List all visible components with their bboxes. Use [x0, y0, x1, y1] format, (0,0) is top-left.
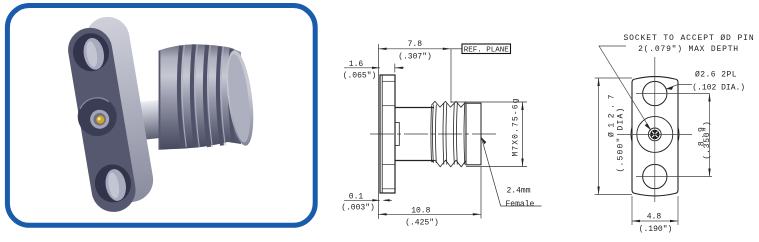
bottom hole [643, 164, 667, 188]
7.8 dim line [378, 48, 451, 50]
smooth tip [466, 103, 481, 165]
dia 12.7 dim [595, 77, 632, 79]
0.1 dim [344, 199, 380, 201]
svg-text:(.065″): (.065″) [343, 72, 377, 81]
coupling nut body [159, 44, 242, 150]
top hole [643, 81, 667, 105]
side bump arcs [631, 126, 632, 143]
svg-text:(.190″): (.190″) [639, 225, 673, 234]
svg-text:4.8: 4.8 [647, 212, 662, 221]
svg-text:Female: Female [506, 200, 535, 209]
svg-text:2.4mm: 2.4mm [507, 187, 531, 196]
centerline [370, 133, 496, 135]
4.8 dim [631, 196, 633, 225]
svg-text:10.8: 10.8 [411, 207, 430, 216]
side/back face light band [82, 14, 156, 206]
center boss [75, 94, 120, 139]
body cylinder [395, 107, 434, 109]
nut thread ribs [179, 45, 234, 148]
left extension line [377, 44, 379, 219]
dimensions middle [344, 44, 542, 219]
flange plate 3d [62, 14, 158, 216]
arrowheads right [597, 78, 710, 222]
ref plane connector [451, 48, 462, 50]
arrowheads middle [372, 48, 524, 216]
REF. PLANE box [462, 44, 511, 54]
socket slots [652, 132, 658, 138]
svg-text:REF. PLANE: REF. PLANE [464, 47, 510, 55]
nut end face [222, 49, 258, 147]
front dark face [65, 25, 139, 216]
neck notch [395, 123, 399, 146]
svg-text:M7X0.75-6g: M7X0.75-6g [512, 97, 521, 156]
svg-text:(.102 DIA.): (.102 DIA.) [692, 84, 745, 93]
svg-text:0.1: 0.1 [349, 192, 364, 201]
1.6 dim [344, 67, 380, 69]
crosshairs right view [595, 46, 712, 225]
nut left edge line [159, 51, 161, 150]
2.6 leader [666, 85, 692, 90]
ref plane vertical [450, 49, 452, 103]
boss circle [637, 116, 673, 152]
blue frame [7, 6, 315, 226]
svg-text:(.350″): (.350″) [703, 120, 712, 159]
svg-text:(.003″): (.003″) [341, 204, 375, 213]
flange plate section [380, 75, 395, 193]
0.1 step face [381, 76, 383, 193]
svg-text:7.8: 7.8 [408, 40, 423, 49]
top mounting hole [70, 31, 112, 74]
svg-text:(.307″): (.307″) [398, 53, 432, 62]
socket outer [648, 128, 661, 141]
svg-text:(.425″): (.425″) [405, 219, 439, 228]
2.4mm female leader [481, 137, 541, 206]
nut rib highlights [182, 45, 225, 148]
socket center dot [654, 133, 656, 135]
threads [431, 101, 466, 167]
10.8 dim [480, 167, 482, 219]
M7 dim [451, 101, 527, 103]
svg-text:Ø2.6 2PL: Ø2.6 2PL [695, 71, 737, 80]
connector neck cylinder [122, 99, 172, 142]
plate outline [632, 77, 678, 196]
svg-text:1.6: 1.6 [349, 60, 364, 69]
8.9 dim [709, 94, 711, 177]
socket leader [599, 46, 651, 130]
bottom mounting hole [92, 162, 134, 205]
mounting hole tangent lines [382, 81, 395, 189]
svg-text:(.500″ DIA): (.500″ DIA) [617, 106, 626, 172]
socket fill [650, 130, 659, 139]
svg-text:Ø12.7: Ø12.7 [608, 90, 617, 137]
svg-text:SOCKET TO ACCEPT ØD PIN: SOCKET TO ACCEPT ØD PIN [623, 34, 754, 43]
svg-text:2(.079″) MAX DEPTH: 2(.079″) MAX DEPTH [638, 45, 739, 54]
